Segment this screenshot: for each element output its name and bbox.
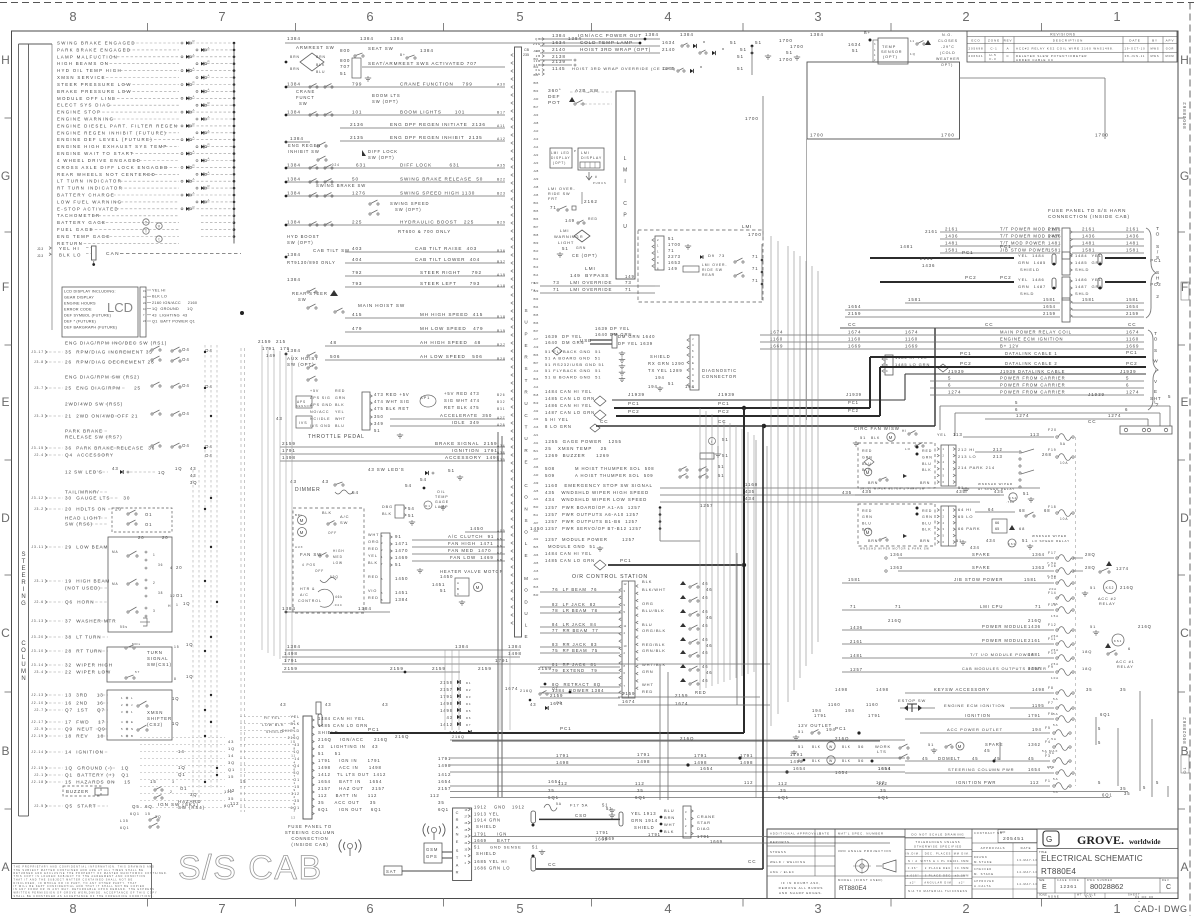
svg-text:2159: 2159 [538,666,552,671]
svg-text:B37: B37 [497,260,506,264]
svg-text:BRN: BRN [316,55,326,59]
svg-text:2159: 2159 [440,680,453,685]
svg-text:P: P [623,212,627,218]
svg-text:1470: 1470 [395,548,408,553]
svg-text:48: 48 [330,340,337,345]
svg-text:2161: 2161 [920,256,933,261]
svg-text:6: 6 [692,349,694,353]
svg-text:CC: CC [985,322,993,327]
svg-text:51: 51 [737,54,744,59]
svg-text:1700: 1700 [745,116,759,121]
svg-text:PARK BRAKE ENGAGED: PARK BRAKE ENGAGED [57,47,131,52]
svg-text:KS2: KS2 [1106,586,1115,590]
svg-text:U: U [524,436,528,441]
svg-text:1791: 1791 [438,756,451,761]
svg-text:5: 5 [1126,376,1129,381]
svg-text:A08: A08 [534,121,539,125]
svg-text:R: R [456,870,460,875]
svg-text:WELD / WELDING: WELD / WELDING [770,860,806,864]
svg-text:1160: 1160 [866,702,879,707]
svg-text:SHIELD: SHIELD [476,824,497,829]
svg-text:1195: 1195 [1032,703,1045,708]
svg-text:REV: REV [1004,39,1013,43]
svg-text:MWS: MWS [1150,47,1159,51]
svg-text:BLU: BLU [316,70,325,74]
svg-text:707: 707 [340,64,350,69]
svg-text:F20: F20 [1048,428,1057,432]
svg-text:IVS: IVS [299,421,308,425]
svg-text:C: C [524,413,528,418]
svg-text:DATE: DATE [1129,39,1140,43]
svg-text:6: 6 [948,383,951,388]
svg-text:80028862: 80028862 [1090,882,1123,891]
svg-text:435 WNDSHLD WIPER HIGH SPEED: 435 WNDSHLD WIPER HIGH SPEED [545,490,649,495]
svg-text:REMOVE ALL BURRS: REMOVE ALL BURRS [779,886,824,890]
svg-text:T: T [1156,226,1160,232]
svg-text:7: 7 [218,9,225,24]
svg-text:43: 43 [276,416,283,421]
svg-text:1486 CAN HI YEL: 1486 CAN HI YEL [545,403,592,408]
svg-text:6: 6 [366,9,373,24]
svg-text:435: 435 [956,489,966,494]
svg-text:RET BLK 475: RET BLK 475 [444,405,479,410]
svg-text:GRN: GRN [642,669,654,674]
svg-text:GSM: GSM [426,847,438,852]
svg-text:2159: 2159 [848,311,861,316]
svg-text:1: 1 [131,710,133,714]
svg-text:M: M [300,530,305,535]
svg-text:A12: A12 [497,137,506,141]
svg-text:51: 51 [852,48,859,53]
svg-text:2159: 2159 [1126,311,1139,316]
svg-text:LMI: LMI [585,266,596,272]
svg-text:1669: 1669 [770,344,783,349]
svg-text:Q1: Q1 [228,767,235,772]
svg-text:5: 5 [1015,400,1018,405]
svg-text:WHT: WHT [664,822,676,827]
svg-text:BLU: BLU [642,622,652,627]
svg-text:O4: O4 [182,357,190,362]
svg-text:1: 1 [1113,901,1120,916]
svg-text:B32: B32 [497,400,505,404]
svg-text:O: O [21,648,26,654]
svg-text:LOW BLK: LOW BLK [262,723,284,727]
svg-text:2: 2 [657,238,659,242]
svg-text:#: # [595,175,598,179]
svg-text:ECO: ECO [971,39,980,43]
svg-text:1791: 1791 [1028,713,1041,718]
svg-text:1654: 1654 [700,766,713,771]
svg-text:U: U [524,611,528,616]
svg-text:3: 3 [657,255,659,259]
svg-text:2: 2 [153,581,156,585]
svg-text:2: 2 [962,901,969,916]
svg-text:1384: 1384 [287,82,301,87]
svg-text:113: 113 [953,432,963,437]
svg-text:R: R [700,65,703,69]
svg-text:1498: 1498 [790,759,803,764]
svg-text:51: 51 [408,513,415,518]
svg-text:S: S [525,308,529,313]
svg-text:LO: LO [905,447,911,451]
svg-text:1257: 1257 [850,667,863,672]
svg-text:RX GRN 1290: RX GRN 1290 [648,361,685,366]
svg-text:LO SPEED RELAY: LO SPEED RELAY [1032,539,1070,543]
svg-text:71: 71 [553,287,560,292]
svg-text:J3-12: J3-12 [31,496,44,500]
svg-text:BLK: BLK [291,722,301,726]
svg-text:SEAT SW: SEAT SW [368,46,394,51]
svg-text:20: 20 [162,535,168,540]
svg-text:D: D [1180,511,1189,525]
svg-text:REAR WHEELS NOT CENTERED: REAR WHEELS NOT CENTERED [57,172,156,177]
svg-text:OIL: OIL [437,490,446,494]
svg-text:N: N [21,676,25,682]
svg-text:BOOM LTS: BOOM LTS [372,93,401,98]
svg-text:SPARE: SPARE [985,742,1003,747]
svg-text:F7: F7 [1048,701,1054,705]
svg-text:205698: 205698 [968,47,983,51]
svg-text:1384: 1384 [680,32,694,37]
svg-text:A05: A05 [534,561,539,565]
svg-text:C: C [1166,884,1171,891]
svg-text:SKYLT WIPER MOTOR & PARK SW: SKYLT WIPER MOTOR & PARK SW [860,488,925,491]
svg-text:1686 GRN LO: 1686 GRN LO [474,866,510,871]
svg-text:1498: 1498 [440,708,453,713]
svg-text:D2: D2 [466,688,471,692]
svg-text:Q4 ACCESSORY: Q4 ACCESSORY [65,453,114,458]
svg-text:M. STAKE: M. STAKE [974,872,994,876]
svg-text:IT WILL BE KEPT CONFIDENTIAL A: IT WILL BE KEPT CONFIDENTIAL AND THAT IT… [14,885,145,888]
svg-text:194: 194 [648,384,658,389]
svg-text:W: W [1153,358,1158,363]
svg-text:12: 12 [291,816,296,820]
svg-text:RELAY: RELAY [1099,602,1116,606]
svg-text:26 RPM/DIAG DECREMENT 26: 26 RPM/DIAG DECREMENT 26 [65,360,155,365]
svg-text:B+ 12V: B+ 12V [1000,344,1019,349]
svg-text:SW: SW [340,520,348,525]
svg-text:51: 51 [448,468,455,473]
svg-text:J2-13: J2-13 [31,693,44,697]
svg-text:F9: F9 [1048,665,1054,669]
svg-text:1700: 1700 [810,133,824,138]
svg-text:28Q: 28Q [1085,565,1096,570]
svg-text:LMI OVERRIDE: LMI OVERRIDE [570,287,612,292]
svg-text:J1939: J1939 [628,392,645,397]
svg-text:W: W [829,745,833,749]
svg-text:V: V [1154,379,1158,384]
svg-text:435: 435 [745,489,755,494]
svg-text:FRT: FRT [548,197,558,201]
svg-text:51: 51 [740,47,747,52]
svg-text:ACCESSORY 1498: ACCESSORY 1498 [445,455,500,460]
svg-text:73: 73 [531,281,536,285]
svg-text:FAN MED 1470: FAN MED 1470 [448,548,491,553]
svg-text:A38: A38 [534,185,539,189]
svg-text:BATTERY CHARGE: BATTERY CHARGE [57,193,115,198]
svg-text:51 A BOARD GND 51: 51 A BOARD GND 51 [545,355,601,360]
svg-text:1485 CAN LO GRN: 1485 CAN LO GRN [545,396,595,401]
svg-text:19-OCT-10: 19-OCT-10 [1125,47,1146,51]
svg-text:1450: 1450 [395,576,408,581]
svg-text:BLK: BLK [382,512,392,516]
svg-text:CRANE: CRANE [296,89,315,94]
svg-text:A35: A35 [497,164,506,168]
svg-text:CC: CC [848,322,856,327]
svg-text:508: 508 [545,466,555,471]
svg-text:AND SHARP EDGES.: AND SHARP EDGES. [779,891,823,895]
svg-text:ENG DPF REGEN INITIATE 2136: ENG DPF REGEN INITIATE 2136 [390,122,486,127]
svg-text:LMI: LMI [581,151,590,155]
svg-text:ARMREST SW: ARMREST SW [296,45,335,50]
svg-text:R: R [193,39,195,43]
svg-text:59Q: 59Q [330,575,339,579]
svg-text:B: B [457,587,460,591]
svg-text:E: E [525,553,529,558]
svg-text:ACCELERATE 350: ACCELERATE 350 [440,413,492,418]
svg-text:8: 8 [381,598,383,602]
svg-text:1Q GROUND 1Q: 1Q GROUND 1Q [152,307,193,311]
svg-text:46: 46 [702,637,708,642]
svg-text:N: N [456,832,460,837]
svg-text:2 PLACE DEC: 2 PLACE DEC [925,867,951,870]
svg-text:S: S [525,518,529,523]
svg-text:1498: 1498 [740,760,753,765]
svg-text:CAB TILT LOWER 404: CAB TILT LOWER 404 [415,257,480,262]
svg-text:3: 3 [172,780,175,784]
svg-text:WHT/BLK: WHT/BLK [642,662,666,667]
svg-text:1639 DP YEL: 1639 DP YEL [545,334,582,339]
svg-text:1700: 1700 [779,38,793,43]
svg-text:46: 46 [702,623,708,628]
svg-text:360°: 360° [548,88,562,94]
svg-text:6Q1: 6Q1 [778,795,789,800]
svg-text:STEER RIGHT 792: STEER RIGHT 792 [420,270,482,275]
svg-text:A: A [1007,47,1010,51]
svg-text:PC1: PC1 [1126,350,1138,355]
svg-text:CAN: CAN [106,251,120,257]
svg-text:434 WNDSHLD WIPER LOW SPEED: 434 WNDSHLD WIPER LOW SPEED [545,497,647,502]
svg-text:1485 CAN LO GRN: 1485 CAN LO GRN [318,723,368,728]
svg-text:MAT'L SPEC. NUMBER: MAT'L SPEC. NUMBER [838,832,884,836]
svg-text:B17: B17 [534,105,539,109]
svg-text:GROVE.: GROVE. [1077,833,1124,847]
svg-text:GRN: GRN [862,515,873,519]
svg-text:30 GAUGE LTS 30: 30 GAUGE LTS 30 [65,496,130,501]
svg-text:B17: B17 [497,111,506,115]
svg-text:1791: 1791 [740,753,753,758]
svg-text:1791: 1791 [262,346,275,351]
svg-text:2159: 2159 [282,441,296,446]
svg-text:LMI OVER-: LMI OVER- [548,187,576,191]
svg-text:216Q: 216Q [888,618,902,623]
svg-text:DBG: DBG [382,505,393,509]
svg-text:WNDSHD WIPER MOTOR & PARK SW: WNDSHD WIPER MOTOR & PARK SW [860,548,930,551]
svg-text:BLK: BLK [335,403,345,407]
svg-text:51: 51 [722,437,729,442]
svg-text:1257 PWR OUTPUTS B1-B6 1257: 1257 PWR OUTPUTS B1-B6 1257 [545,519,638,524]
svg-text:2135: 2135 [350,135,364,140]
svg-text:J2-5: J2-5 [34,804,44,808]
svg-text:BLU: BLU [922,521,932,525]
svg-text:(OPT): (OPT) [883,55,898,59]
svg-text:6Q1 IGN OUT 6Q1: 6Q1 IGN OUT 6Q1 [318,807,381,812]
svg-text:MODULE OFF LINE: MODULE OFF LINE [57,96,116,101]
svg-text:1581: 1581 [1126,297,1139,302]
svg-text:F10: F10 [1048,651,1057,655]
svg-text:15: 15 [145,812,151,816]
svg-text:43: 43 [322,479,329,484]
svg-text:J2-7: J2-7 [34,708,44,712]
svg-text:SIGNAL: SIGNAL [147,656,169,661]
svg-text:3: 3 [153,609,156,613]
svg-text:1362: 1362 [1028,742,1041,747]
svg-text:1634: 1634 [552,40,566,45]
svg-text:C: C [1,626,10,640]
svg-text:B23: B23 [497,192,506,196]
svg-text:6: 6 [1125,407,1128,412]
svg-text:18Q: 18Q [1082,649,1092,654]
svg-text:1: 1 [657,244,659,248]
svg-text:1654: 1654 [793,766,806,771]
svg-text:H: H [1180,53,1189,67]
svg-text:ENGINE ECM IGNITION: ENGINE ECM IGNITION [944,703,1005,708]
svg-text:1145: 1145 [662,66,675,71]
svg-text:F4: F4 [1045,740,1051,744]
svg-text:SWING BRAKE SW: SWING BRAKE SW [316,183,366,188]
svg-text:43: 43 [382,702,388,707]
svg-text:1469: 1469 [395,555,408,560]
svg-text:DEF SYMBOL (FUTURE): DEF SYMBOL (FUTURE) [64,314,112,318]
svg-text:S: S [525,366,529,371]
svg-text:71: 71 [850,604,856,609]
svg-text:ENG DIAG/RPM INC/DEC SW (RS1): ENG DIAG/RPM INC/DEC SW (RS1) [65,341,167,346]
svg-text:SW (OPT): SW (OPT) [368,155,395,160]
svg-text:ENGINE DIESEL PART. FILTER REG: ENGINE DIESEL PART. FILTER REGEN [57,123,178,128]
svg-text:O: O [524,588,528,593]
svg-text:DEF * (FUTURE): DEF * (FUTURE) [64,320,96,324]
svg-text:SHIELD: SHIELD [266,730,284,734]
svg-text:SHIELD: SHIELD [282,729,300,733]
svg-text:KEYSW ACCESSORY: KEYSW ACCESSORY [934,687,990,692]
svg-text:SIZE: SIZE [1039,879,1045,882]
svg-text:1634: 1634 [662,40,675,45]
svg-text:R: R [208,101,210,105]
svg-text:3: 3 [814,901,821,916]
svg-text:50: 50 [352,177,359,182]
svg-text:2273: 2273 [668,254,681,259]
svg-text:2140: 2140 [552,47,566,52]
svg-text:A17: A17 [534,337,539,341]
svg-text:F: F [2,280,9,294]
svg-text:J3-10: J3-10 [31,649,44,653]
svg-text:45: 45 [972,756,978,761]
svg-text:43: 43 [325,702,331,707]
svg-text:216Q IGN/ACC 216Q: 216Q IGN/ACC 216Q [318,737,388,742]
svg-text:149: 149 [565,218,575,223]
svg-text:1384: 1384 [287,163,301,168]
svg-text:RED: RED [642,689,653,694]
svg-text:LMI: LMI [560,228,569,233]
svg-text:1: 1 [657,249,659,253]
svg-text:1Q: 1Q [158,470,165,475]
svg-text:35: 35 [438,800,445,805]
svg-text:35: 35 [780,788,787,793]
svg-text:CONNECTION (INSIDE CAB): CONNECTION (INSIDE CAB) [1048,214,1130,219]
svg-text:B15: B15 [534,585,539,589]
svg-text:68: 68 [1019,526,1025,531]
svg-text:E: E [1154,389,1158,394]
svg-text:101: 101 [352,110,362,115]
svg-text:A: A [1,860,9,874]
svg-text:B33: B33 [534,297,539,301]
svg-text:ACC POWER OUTLET: ACC POWER OUTLET [947,727,1003,732]
svg-text:1484 CAN HI YEL: 1484 CAN HI YEL [545,389,592,394]
svg-text:216Q: 216Q [520,689,533,693]
svg-text:B: B [1180,744,1188,758]
svg-text:F2: F2 [1048,766,1054,770]
svg-text:6: 6 [1126,383,1129,388]
svg-text:J1939 DATALINK CABLE: J1939 DATALINK CABLE [1000,369,1065,374]
svg-text:HOIST 3RD WRAP (OPT): HOIST 3RD WRAP (OPT) [580,47,651,52]
svg-text:5: 5 [1143,785,1146,790]
svg-text:XMSN SERVICE: XMSN SERVICE [57,75,106,80]
svg-text:35: 35 [880,788,887,793]
svg-text:1669: 1669 [710,839,723,844]
svg-text:415: 415 [352,312,362,317]
svg-text:1581: 1581 [945,248,958,253]
svg-text:±0.3MM: ±0.3MM [955,874,969,877]
svg-text:43: 43 [228,739,234,744]
svg-text:F19: F19 [1048,448,1057,452]
svg-text:(NOT USED): (NOT USED) [65,586,101,591]
svg-text:B36: B36 [497,249,506,253]
svg-text:5: 5 [1168,394,1171,399]
svg-text:20: 20 [176,565,182,570]
svg-text:ORG: ORG [642,601,654,606]
svg-text:65: 65 [995,527,999,531]
svg-text:1791: 1791 [814,713,827,718]
svg-text:A24: A24 [534,497,539,501]
svg-text:O: O [1154,336,1158,341]
svg-text:LT TURN INDICATOR: LT TURN INDICATOR [57,179,122,184]
svg-text:D: D [524,599,528,604]
svg-text:B27: B27 [497,343,506,347]
svg-text:C: C [456,810,460,815]
svg-text:1384: 1384 [390,36,404,41]
svg-text:2159: 2159 [478,666,492,671]
svg-text:1Q: 1Q [910,52,916,56]
svg-text:1Q: 1Q [172,721,179,726]
svg-text:43: 43 [530,702,536,707]
svg-text:479: 479 [352,326,362,331]
svg-text:51: 51 [395,562,402,567]
svg-text:ANGULAR DIM: ANGULAR DIM [924,882,951,885]
svg-text:PC1: PC1 [718,401,730,406]
svg-text:GRN: GRN [922,515,933,519]
svg-text:1384: 1384 [552,33,566,38]
svg-text:STEEING COLUMN: STEEING COLUMN [285,830,335,835]
svg-text:2161: 2161 [945,227,958,232]
svg-text:BRN: BRN [664,815,675,820]
svg-text:56: 56 [858,758,864,763]
svg-text:J3-13: J3-13 [31,619,44,623]
svg-text:A18: A18 [497,284,506,288]
svg-text:51: 51 [928,742,934,747]
svg-text:BLK: BLK [812,759,821,763]
svg-text:2159: 2159 [258,339,271,344]
svg-text:51: 51 [374,428,380,433]
